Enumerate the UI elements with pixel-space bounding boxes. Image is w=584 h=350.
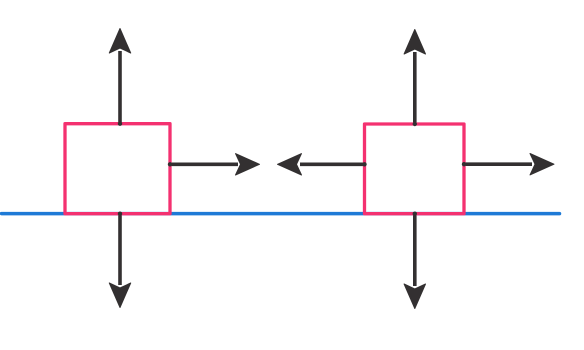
right force arrow (right block) xyxy=(464,154,554,175)
junction dot: right block right side xyxy=(462,162,466,166)
ground surface line xyxy=(2,212,560,216)
junction dot: left block top xyxy=(118,122,122,126)
junction dot: right block top xyxy=(413,122,417,126)
block 1 (left pink box) xyxy=(65,124,170,214)
right force arrow (left block) xyxy=(170,154,260,175)
junction dot: left block right side xyxy=(168,162,172,166)
junction dot: left block bottom xyxy=(118,212,122,216)
up force arrow (right block) xyxy=(404,30,425,125)
junction dot: right block bottom xyxy=(413,212,417,216)
block 2 (right pink box) xyxy=(365,124,465,214)
up force arrow (left block) xyxy=(109,29,130,124)
left force arrow (right block) xyxy=(278,154,365,175)
down force arrow (left block) xyxy=(109,214,130,308)
junction dot: right block left side xyxy=(362,162,366,166)
down force arrow (right block) xyxy=(404,214,425,309)
